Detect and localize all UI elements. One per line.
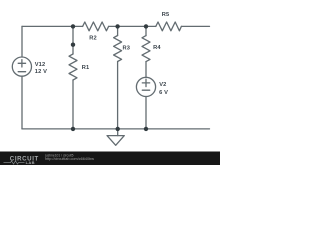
- resistor R2: [83, 22, 109, 31]
- wire top rail left segment: [22, 25, 83, 27]
- node dot V2 bottom rail: [144, 127, 148, 131]
- node dot R1 top rail: [71, 24, 75, 28]
- svg-text:12 V: 12 V: [35, 69, 47, 75]
- wire R1 column top: [72, 26, 74, 54]
- svg-text:http://circuitlab.com/c6640bw: http://circuitlab.com/c6640bw: [45, 157, 94, 161]
- svg-text:R4: R4: [153, 45, 161, 51]
- svg-text:R2: R2: [89, 36, 97, 42]
- wire bottom rail: [22, 128, 210, 130]
- wire V2 to bottom rail: [145, 97, 147, 129]
- svg-text:R1: R1: [82, 65, 90, 71]
- svg-text:R3: R3: [123, 45, 131, 51]
- voltage source V12: [12, 57, 31, 76]
- wire left column below V12: [21, 76, 23, 129]
- node dot R1 bottom rail: [71, 127, 75, 131]
- wire R4 to V2: [145, 62, 147, 78]
- node dot R4 top rail: [144, 24, 148, 28]
- wire left column above V12: [21, 26, 23, 57]
- wire top rail middle segment: [109, 25, 156, 27]
- svg-text:V12: V12: [35, 62, 46, 68]
- ground: [117, 129, 119, 136]
- svg-text:R5: R5: [162, 12, 170, 18]
- node dot R3 top rail: [115, 24, 119, 28]
- svg-text:V2: V2: [159, 82, 166, 88]
- svg-text:6 V: 6 V: [159, 90, 168, 96]
- wire R4 column top: [145, 26, 147, 35]
- node dot ground junction: [116, 127, 120, 131]
- resistor R4: [142, 36, 150, 62]
- footer bar: [0, 152, 220, 166]
- wire R3 column top: [117, 26, 119, 35]
- resistor R3: [114, 36, 122, 62]
- node dot R1 lead: [71, 43, 75, 47]
- svg-text:LAB: LAB: [26, 160, 35, 165]
- wire R1 column bottom: [72, 80, 74, 129]
- wire R3 column bottom: [117, 62, 119, 129]
- resistor R5: [156, 22, 182, 31]
- wire top rail right segment: [181, 25, 209, 27]
- resistor R1: [69, 54, 77, 80]
- voltage source V2: [136, 77, 155, 96]
